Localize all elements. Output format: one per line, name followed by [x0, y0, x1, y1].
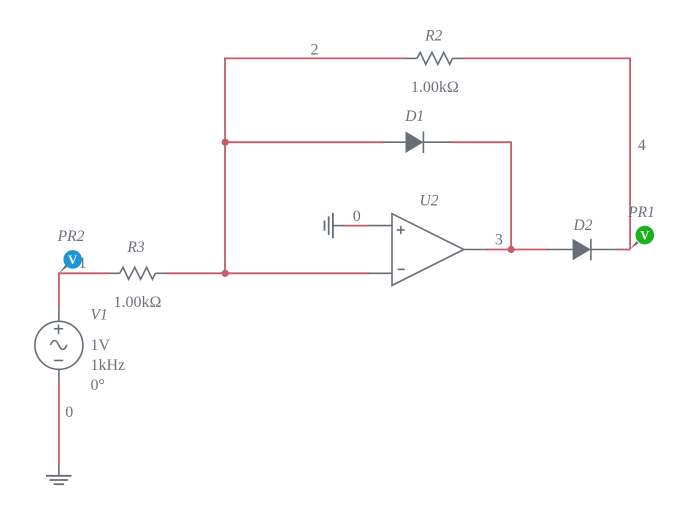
source V1: [35, 308, 83, 381]
wire net0 opamp plus input: [343, 225, 369, 227]
wire net3 output horizontal: [487, 249, 549, 251]
junction dot net1 at R3/opamp: [222, 270, 229, 277]
svg-text:V: V: [640, 229, 649, 243]
wire net1 vertical to V1: [58, 272, 60, 308]
op-amp U2: [369, 214, 488, 286]
svg-text:D1: D1: [404, 108, 424, 125]
junction dot net3 at opamp output: [508, 246, 515, 253]
ground symbol bottom: [46, 476, 72, 484]
wire gray stub V1 bottom to ground: [58, 464, 60, 476]
svg-text:0: 0: [65, 404, 73, 421]
diode D2: [548, 239, 618, 261]
svg-text:R2: R2: [424, 27, 442, 44]
diode D1: [383, 131, 451, 153]
wire net3 D1 to corner: [450, 141, 511, 143]
svg-text:2: 2: [311, 42, 319, 59]
junction dot net2 at D1 branch: [222, 139, 229, 146]
svg-text:1kHz: 1kHz: [91, 357, 126, 374]
wire net2 top horizontal: [224, 57, 406, 59]
wire net2 D1 branch horizontal: [225, 141, 384, 143]
wire net3 vertical: [510, 141, 512, 249]
svg-text:D2: D2: [573, 217, 593, 234]
svg-text:0°: 0°: [91, 377, 105, 394]
svg-text:V1: V1: [91, 307, 108, 324]
svg-text:3: 3: [495, 232, 503, 249]
svg-text:U2: U2: [420, 193, 439, 210]
resistor R3: [109, 267, 167, 279]
svg-text:1.00kΩ: 1.00kΩ: [114, 294, 162, 311]
wire net2 left vertical: [224, 58, 226, 274]
svg-text:PR1: PR1: [627, 204, 655, 221]
probe PR1: [630, 226, 654, 249]
wire net0 V1 to ground: [58, 380, 60, 465]
svg-text:PR2: PR2: [57, 228, 85, 245]
svg-text:0: 0: [353, 208, 361, 225]
svg-text:1V: 1V: [91, 337, 111, 354]
svg-text:R3: R3: [126, 239, 144, 256]
resistor R2: [405, 52, 464, 64]
wire net1 R3 to opamp minus: [166, 272, 370, 274]
ground symbol at opamp plus input: [325, 213, 344, 238]
wire net4 top horizontal: [463, 57, 630, 59]
wire net4 right vertical: [629, 58, 631, 250]
svg-text:1.00kΩ: 1.00kΩ: [411, 79, 459, 96]
svg-text:4: 4: [638, 137, 646, 154]
wire net1 V1 to R3: [59, 272, 110, 274]
probe PR2: [59, 250, 82, 273]
svg-text:V: V: [68, 253, 77, 267]
wire net4 D2 to corner: [617, 249, 630, 251]
